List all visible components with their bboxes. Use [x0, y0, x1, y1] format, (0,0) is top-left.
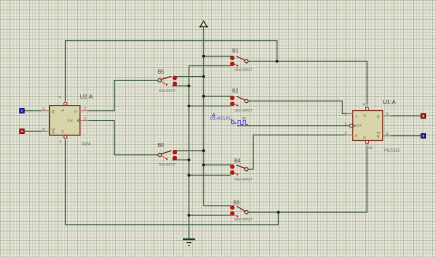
svg-text:3: 3: [345, 112, 347, 116]
wire B0 upper throw to power rail end: [204, 205, 231, 207]
wire B5 upper throw to power rail: [174, 76, 203, 78]
svg-text:74LS112: 74LS112: [383, 147, 400, 152]
svg-text:SW-SPDT: SW-SPDT: [159, 163, 177, 167]
svg-text:1: 1: [345, 122, 347, 126]
node power-B4: [202, 164, 205, 167]
svg-text:SW-SPDT: SW-SPDT: [234, 107, 253, 112]
node power-B6: [202, 149, 205, 152]
svg-text:Q: Q: [52, 130, 55, 134]
wire B1 lower throw to ground rail: [189, 65, 231, 67]
svg-text:Q: Q: [52, 110, 55, 114]
wire B5 pole to U2:A D pin2: [88, 80, 158, 110]
wire B4 pole to U1:A K pin: [248, 135, 345, 169]
wire B1 upper throw to power rail: [204, 55, 231, 57]
wire clock generator to U1:A CLK: [237, 125, 350, 127]
U2:A pin 5 stub: [42, 110, 50, 112]
node ground-B5: [188, 85, 191, 88]
U1:A pin 4 stub and bubble: [366, 104, 369, 110]
node ground-B4: [188, 174, 191, 177]
logic probe blue left Q: [20, 108, 25, 113]
svg-text:15: 15: [368, 146, 372, 150]
svg-text:SW-SPDT: SW-SPDT: [234, 217, 253, 222]
wire B4 upper throw to power rail: [204, 164, 231, 166]
U2:A pin 4 stub and bubble: [64, 101, 67, 106]
logic probe red left Qbar: [20, 129, 25, 134]
svg-text:B1: B1: [232, 49, 238, 55]
node power-B5: [202, 75, 205, 78]
svg-text:S: S: [363, 114, 367, 116]
svg-text:U1:A(CLK): U1:A(CLK): [210, 116, 231, 121]
wire B4 lower throw to ground rail: [189, 174, 231, 176]
wire B0 lower throw to ground rail: [189, 214, 231, 216]
svg-text:B4: B4: [234, 158, 240, 164]
svg-text:U2:A: U2:A: [80, 95, 93, 101]
U1:A clock triangle: [353, 124, 356, 127]
U1:A label Qbar: [377, 133, 380, 138]
wire B5 lower throw to ground rail: [172, 85, 189, 87]
switch B6: [158, 143, 177, 167]
svg-text:4: 4: [59, 95, 61, 99]
wire B6 pole to U2:A CLK pin3: [88, 121, 158, 155]
switch B0: [230, 200, 253, 221]
svg-text:5: 5: [43, 107, 45, 111]
node S-net junction: [276, 60, 279, 63]
svg-text:50: 50: [242, 116, 246, 120]
wire U1:A Q pin5 to right probe: [391, 115, 421, 117]
svg-text:B0: B0: [233, 200, 239, 206]
U1:A pin 15 stub and bubble: [366, 140, 369, 146]
logic probe blue right Qbar: [421, 134, 426, 139]
IC U2:A body 7474: [50, 106, 80, 136]
wire left probe Qbar to U2:A pin6: [24, 130, 42, 132]
node power-B2: [202, 95, 205, 98]
switch B1: [230, 49, 253, 72]
wire left probe Q to U2:A pin5: [24, 110, 42, 112]
ground: [183, 239, 195, 245]
svg-text:B6: B6: [158, 143, 164, 149]
wire B2 lower throw to ground rail: [189, 105, 231, 107]
svg-text:4: 4: [363, 102, 365, 106]
node ground-B2: [188, 105, 191, 108]
switch B4: [230, 158, 253, 181]
svg-text:S: S: [61, 109, 65, 111]
node power-B1: [202, 55, 205, 58]
svg-text:CLK: CLK: [356, 124, 362, 128]
switch B2: [230, 89, 253, 113]
U1:A pin 1 stub and CLK bubble: [350, 124, 353, 127]
svg-text:6: 6: [43, 127, 45, 131]
wire B0 pole to U1:A R-bar: [248, 146, 367, 212]
svg-text:U1:A: U1:A: [383, 100, 396, 106]
clock generator U1:A(CLK): [210, 113, 248, 124]
U2:A pin 1 stub and bubble: [64, 135, 67, 140]
svg-text:5: 5: [386, 112, 388, 116]
wire B2 pole to U1:A J pin: [248, 101, 345, 114]
node ground-B6: [188, 159, 191, 162]
wire B6 lower throw to ground rail: [172, 159, 189, 161]
svg-text:6: 6: [386, 132, 388, 136]
logic probe red right Q: [421, 114, 426, 119]
wire B6 upper throw to power rail: [174, 150, 203, 152]
power symbol VCC arrow: [199, 21, 207, 28]
U2:A pin 3 stub: [80, 120, 88, 122]
svg-text:Q: Q: [377, 134, 380, 138]
svg-text:7474: 7474: [81, 142, 91, 147]
wire power rail vertical: [203, 27, 205, 206]
U2:A label Qbar: [52, 129, 55, 134]
IC U1:A body 74LS112: [353, 111, 383, 141]
U2:A clock triangle: [77, 119, 80, 122]
U2:A pin 2 stub: [80, 110, 88, 112]
node R-net junction: [277, 211, 280, 214]
U1:A pin 6 stub: [383, 135, 391, 137]
U1:A pin 2 stub: [345, 134, 353, 136]
svg-text:CLK: CLK: [67, 119, 73, 123]
U1:A pin 3 stub: [345, 113, 353, 115]
svg-text:2: 2: [345, 131, 347, 135]
wire B1 pole to U1:A S-bar: [248, 61, 367, 104]
node ground-B0: [188, 214, 191, 217]
svg-text:SW-SPDT: SW-SPDT: [234, 177, 253, 182]
wire U2:A S-bar to top rail to B1 node: [65, 41, 277, 101]
svg-text:B2: B2: [232, 89, 238, 95]
wire U1:A Qbar pin6 to right probe: [391, 135, 421, 137]
U2:A pin 6 stub: [42, 130, 50, 132]
wire ground rail vertical: [188, 66, 190, 240]
switch B5: [158, 70, 177, 93]
wire U2:A R-bar down and right to R-net: [65, 140, 278, 225]
svg-text:Q: Q: [377, 115, 380, 119]
svg-text:2: 2: [84, 107, 86, 111]
svg-text:B5: B5: [158, 70, 164, 76]
svg-text:SW-SPDT: SW-SPDT: [234, 67, 253, 72]
svg-text:3: 3: [84, 117, 86, 121]
svg-text:1: 1: [59, 140, 61, 144]
svg-text:SW-SPDT: SW-SPDT: [159, 89, 177, 93]
U1:A pin 5 stub: [383, 115, 391, 117]
wire B2 upper throw to power rail: [204, 95, 231, 97]
